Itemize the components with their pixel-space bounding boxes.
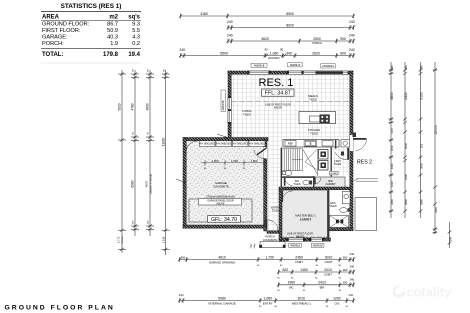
ens vanity + basin [343, 191, 351, 204]
svg-text:240: 240 [349, 48, 355, 52]
svg-text:490: 490 [181, 255, 186, 259]
stairs [282, 149, 318, 176]
door opening right wall (porch entry) [350, 135, 353, 151]
svg-text:3180: 3180 [200, 12, 208, 16]
garage left wall [183, 138, 186, 229]
laundry tiles [332, 148, 350, 176]
top wall [228, 71, 353, 74]
svg-text:TILES: TILES [329, 204, 336, 208]
garage right wall [264, 140, 267, 231]
bottom dim line 1 [178, 257, 355, 262]
svg-text:GARAGE INTERNAL: GARAGE INTERNAL [149, 173, 152, 195]
shelves row [200, 141, 266, 147]
garage bottom wall [183, 225, 267, 228]
entry bottom wall [267, 231, 279, 234]
svg-text:1040: 1040 [390, 163, 394, 169]
svg-text:6980: 6980 [131, 180, 135, 187]
svg-text:4070: 4070 [144, 180, 148, 187]
svg-text:1260: 1260 [333, 296, 341, 300]
svg-text:BIR: BIR [320, 286, 325, 290]
top dim line 4 [179, 53, 355, 58]
svg-text:WESTMEAD 1: WESTMEAD 1 [292, 301, 312, 305]
svg-text:CSMT: CSMT [295, 260, 303, 264]
svg-text:CONCRETE: CONCRETE [213, 185, 229, 189]
top dim line 1 [179, 14, 355, 19]
svg-text:12000: 12000 [434, 125, 438, 135]
windows master bed bottom [287, 238, 324, 241]
svg-text:CONCRETE: CONCRETE [263, 238, 278, 242]
master bed carpet [282, 190, 328, 238]
living/meals/kitchen tile grid [231, 74, 350, 147]
wc toilet horizontal [303, 180, 309, 185]
svg-text:8020: 8020 [286, 23, 294, 27]
windows in top wall [248, 71, 348, 74]
svg-text:5120: 5120 [419, 92, 423, 100]
svg-text:1,500: 1,500 [231, 159, 238, 163]
svg-text:240: 240 [179, 48, 185, 52]
svg-text:4610: 4610 [218, 255, 226, 259]
master bed left wall [279, 190, 282, 242]
svg-text:2750(min)x4850(W)x5m(H): 2750(min)x4850(W)x5m(H) [206, 196, 235, 199]
svg-text:2010: 2010 [324, 268, 332, 272]
ldy door arc [285, 178, 293, 186]
svg-text:1,770: 1,770 [116, 236, 120, 243]
master bed door arc [282, 191, 293, 202]
svg-text:5020: 5020 [118, 103, 122, 110]
leader arrows on left walls [217, 134, 227, 137]
svg-text:11020: 11020 [161, 137, 165, 146]
powder toilet by stairs [285, 171, 292, 176]
ensuite bottom wall [329, 228, 354, 231]
line of first floor above in master bed [282, 236, 327, 238]
svg-text:240: 240 [419, 65, 423, 70]
svg-text:2410: 2410 [318, 281, 326, 285]
svg-text:TILES: TILES [272, 209, 279, 213]
svg-text:FIRST FLOOR:: FIRST FLOOR: [42, 28, 81, 34]
svg-text:240: 240 [349, 33, 355, 37]
svg-text:240: 240 [448, 236, 452, 241]
porch slab right side [355, 198, 377, 231]
svg-text:1,060: 1,060 [264, 296, 273, 300]
svg-text:4.3: 4.3 [132, 34, 140, 40]
svg-text:4780: 4780 [131, 103, 135, 110]
R2 x=405 [404, 62, 406, 218]
svg-text:TILES: TILES [310, 131, 318, 135]
svg-text:240: 240 [348, 293, 353, 297]
statistics table [41, 3, 141, 63]
svg-text:900: 900 [343, 268, 348, 272]
svg-text:GROUND FLOOR:: GROUND FLOOR: [42, 21, 90, 27]
svg-text:1010: 1010 [390, 145, 394, 151]
svg-text:1450: 1450 [300, 268, 308, 272]
svg-text:WC: WC [289, 286, 294, 290]
svg-text:PORCH: PORCH [122, 236, 124, 244]
svg-text:8500: 8500 [286, 12, 294, 16]
svg-text:PORCH:: PORCH: [42, 41, 64, 47]
porch slab outline [260, 242, 285, 248]
svg-text:40.3: 40.3 [107, 34, 118, 40]
ens toilet [340, 208, 348, 213]
svg-text:515: 515 [419, 143, 423, 148]
right wall [350, 71, 353, 230]
svg-text:4620: 4620 [261, 37, 269, 41]
svg-text:AW0918: AW0918 [254, 63, 265, 67]
L2 x=135 [134, 70, 136, 236]
wall above master bed (hall/bir wall) [279, 187, 350, 190]
window labels above top wall [251, 63, 335, 68]
laundry door inside [347, 148, 349, 160]
svg-text:2020: 2020 [404, 143, 408, 149]
svg-text:TILES: TILES [293, 182, 300, 186]
window left wall [228, 97, 231, 123]
wall right of stairs / ldy [331, 148, 332, 177]
bottom dim line 2 [277, 270, 355, 275]
svg-text:240: 240 [349, 20, 355, 24]
small carpet room (bir) [314, 177, 345, 188]
svg-text:5500: 5500 [220, 51, 228, 55]
svg-text:O/S: O/S [334, 301, 339, 305]
oven tower [319, 150, 329, 160]
svg-text:4 H SHELVES: 4 H SHELVES [200, 143, 216, 146]
svg-text:m2: m2 [109, 14, 118, 20]
svg-text:9.3: 9.3 [132, 21, 140, 27]
svg-text:5080: 5080 [218, 296, 226, 300]
svg-text:STATISTICS (RES 1): STATISTICS (RES 1) [61, 3, 122, 10]
R1 x=391 [390, 62, 392, 218]
svg-text:GARAGE:: GARAGE: [42, 34, 68, 40]
svg-text:1.9: 1.9 [110, 41, 118, 47]
svg-text:ENTRY: ENTRY [263, 301, 273, 305]
svg-text:4 H SHELVES: 4 H SHELVES [233, 143, 249, 146]
svg-text:240: 240 [349, 277, 354, 281]
svg-text:1900: 1900 [404, 174, 408, 180]
svg-text:INTERNAL GARAGE: INTERNAL GARAGE [208, 302, 235, 306]
svg-text:3440: 3440 [390, 199, 394, 205]
svg-text:CSMT: CSMT [324, 273, 332, 277]
svg-text:AW0918: AW0918 [313, 243, 323, 247]
robe [330, 171, 339, 175]
svg-text:240: 240 [349, 265, 354, 269]
svg-text:820: 820 [282, 268, 288, 272]
svg-text:2800: 2800 [404, 199, 408, 205]
svg-text:CARPET: CARPET [325, 182, 336, 186]
garage internal dim line [201, 160, 266, 166]
svg-text:TILES: TILES [243, 112, 251, 116]
svg-text:1,060: 1,060 [270, 51, 279, 55]
svg-text:50.9: 50.9 [107, 28, 118, 34]
svg-text:900: 900 [340, 37, 346, 41]
line of first floor above (dashed) [231, 101, 350, 103]
svg-text:ABOVE: ABOVE [274, 107, 283, 110]
garage top wall [183, 138, 268, 141]
svg-text:3010: 3010 [298, 296, 306, 300]
svg-text:179.8: 179.8 [103, 52, 119, 58]
svg-text:3010: 3010 [325, 255, 333, 259]
svg-text:ROBE: ROBE [331, 173, 338, 175]
svg-text:2450: 2450 [295, 255, 303, 259]
kitchen island bench [299, 112, 336, 124]
garage door arc top-left [186, 141, 198, 153]
svg-text:2660: 2660 [419, 199, 423, 205]
right vertical dim lines [389, 62, 452, 248]
ens/master divider wall [327, 190, 329, 240]
svg-text:TILES: TILES [334, 162, 341, 166]
thin wall under stairs (wc top) [281, 176, 315, 178]
kitchen bench row [283, 140, 339, 148]
svg-text:2410: 2410 [434, 207, 438, 213]
svg-text:19.4: 19.4 [128, 52, 140, 58]
svg-text:TOTAL:: TOTAL: [42, 52, 63, 58]
svg-text:1170: 1170 [390, 128, 394, 134]
svg-text:AW0918: AW0918 [290, 243, 300, 247]
svg-text:90: 90 [264, 48, 268, 52]
svg-text:240: 240 [390, 65, 394, 70]
GFL box [208, 216, 241, 223]
watermark cotality [393, 285, 453, 300]
entry door arc + leaf [268, 220, 279, 231]
svg-text:240: 240 [179, 293, 184, 297]
svg-text:2430: 2430 [404, 92, 408, 100]
svg-text:2620: 2620 [312, 51, 320, 55]
svg-text:ASD0921: ASD0921 [322, 64, 334, 68]
left wall of living [228, 71, 231, 140]
svg-text:240: 240 [227, 20, 233, 24]
svg-text:240: 240 [349, 252, 354, 256]
landing void diagonals [303, 149, 318, 175]
svg-text:ABOVE: ABOVE [296, 236, 305, 239]
svg-text:240: 240 [404, 65, 408, 70]
svg-text:900: 900 [340, 51, 346, 55]
svg-text:AW0918: AW0918 [221, 100, 225, 110]
top dim line 3 [227, 39, 356, 44]
svg-text:4630: 4630 [146, 103, 150, 110]
R4 x=435 [434, 62, 436, 234]
svg-text:86.7: 86.7 [107, 21, 118, 27]
svg-text:GFL: 34.70: GFL: 34.70 [211, 217, 237, 223]
svg-text:AW0912: AW0912 [290, 63, 301, 67]
L3 x=150 [149, 70, 151, 236]
svg-text:5.5: 5.5 [132, 28, 140, 34]
laundry nib wall + trough [335, 140, 337, 149]
svg-text:ABOVE: ABOVE [216, 203, 225, 206]
svg-text:1960: 1960 [288, 281, 296, 285]
svg-text:1,500: 1,500 [251, 159, 258, 163]
svg-text:1010: 1010 [390, 181, 394, 187]
top dim line 2 [227, 25, 356, 30]
svg-text:900: 900 [343, 281, 348, 285]
svg-text:RES 2: RES 2 [357, 160, 372, 166]
svg-text:GARAGE OPENING: GARAGE OPENING [209, 260, 236, 264]
svg-text:CARPET: CARPET [300, 217, 312, 221]
small 90 ticks left of porch [250, 244, 256, 249]
bottom dim line 3 [277, 282, 355, 287]
svg-text:4850: 4850 [390, 92, 394, 100]
svg-text:sq's: sq's [128, 14, 140, 20]
svg-text:GROUND FLOOR PLAN: GROUND FLOOR PLAN [5, 304, 115, 311]
garage concrete [186, 140, 264, 225]
svg-text:AREA: AREA [42, 14, 60, 20]
L4 x=165.6 [165, 70, 167, 255]
svg-text:TILES: TILES [309, 97, 317, 101]
svg-text:PORCH: PORCH [312, 41, 321, 45]
svg-text:cotality: cotality [407, 285, 453, 300]
svg-text:2500: 2500 [313, 37, 321, 41]
bottom dim line 4 [178, 298, 355, 303]
front door: opening in right wall, leaf+arc outside on porch [350, 139, 353, 151]
L1 x=122 [121, 70, 123, 253]
svg-text:4 H SHELVES: 4 H SHELVES [216, 143, 232, 146]
garage panel door box [189, 199, 252, 222]
svg-text:90: 90 [280, 48, 284, 52]
left vertical dim lines [118, 70, 170, 255]
svg-text:CSMT: CSMT [325, 260, 333, 264]
svg-text:240: 240 [227, 33, 233, 37]
R5 short x=449.5 [449, 222, 451, 248]
R3 x=420.5 [420, 62, 422, 218]
svg-text:0.2: 0.2 [132, 41, 140, 47]
window label boxes under master bed [289, 243, 302, 247]
FFL box [262, 89, 295, 96]
svg-text:340: 340 [286, 51, 292, 55]
corridor/entry tiles [268, 141, 281, 177]
svg-text:REF: REF [288, 141, 294, 145]
svg-text:RES. 1: RES. 1 [259, 77, 294, 89]
svg-text:FFL: 34.87: FFL: 34.87 [265, 91, 291, 97]
hall left thin wall (stairs left) [281, 148, 282, 188]
svg-text:1,500: 1,500 [212, 159, 219, 163]
master bed bottom wall [279, 238, 331, 241]
svg-text:900: 900 [343, 255, 348, 259]
svg-text:3050: 3050 [419, 163, 423, 169]
wall bir left [313, 176, 314, 188]
svg-text:1,700: 1,700 [265, 255, 274, 259]
garage internal door: opening in garage right wall [264, 147, 267, 159]
svg-text:WALKWAY: WALKWAY [268, 57, 280, 60]
svg-text:4 H SHELVES: 4 H SHELVES [249, 143, 265, 146]
svg-text:1,310: 1,310 [161, 236, 165, 243]
shower [330, 216, 349, 228]
